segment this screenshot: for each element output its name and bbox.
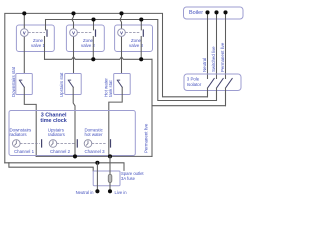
- channel 3 clock: [84, 140, 92, 148]
- wire motor1 vertical from line1 to stat1: [23, 13, 25, 73]
- svg-text:Permanent live: Permanent live: [220, 42, 225, 72]
- svg-text:V: V: [23, 31, 26, 36]
- svg-text:Downstairs stat: Downstairs stat: [11, 66, 16, 97]
- junction dots line2: [91, 17, 95, 21]
- svg-text:3 Pole: 3 Pole: [187, 77, 200, 82]
- dot live feed: [108, 154, 112, 158]
- dot valve2 switch to perm bus: [91, 57, 95, 61]
- wire valve3 switch up to line2 dot: [140, 20, 142, 30]
- channel 3 dashed link: [92, 143, 107, 145]
- svg-text:3A fuse: 3A fuse: [121, 176, 136, 181]
- boiler box: [184, 7, 244, 19]
- isolator switch 2: [217, 79, 224, 89]
- motor V3: [118, 29, 126, 37]
- neutral bottom bus Y2: [5, 163, 124, 171]
- valve2 switch bar: [95, 30, 97, 36]
- channel 2 dashed link: [57, 143, 75, 145]
- wire motor2 vertical with hop over line2: [72, 13, 74, 73]
- stat1 switch: [19, 79, 22, 81]
- 3 pole isolator box: [184, 74, 241, 91]
- junction dots line1: [22, 11, 26, 15]
- valve3 switch bar: [142, 30, 144, 36]
- channel 2 clock: [49, 140, 57, 148]
- zone valve 3 box: [115, 25, 153, 52]
- channel 1 clock: [12, 140, 20, 148]
- dot neutral-in junction: [95, 161, 99, 165]
- permanent live bus under valves with hops over stat wires: [45, 57, 153, 60]
- wire stat1 out with jog into clock box: [24, 87, 36, 156]
- wire permanent live: isolator U3 left to x152: [152, 91, 226, 106]
- zone valve 2 box: [66, 25, 104, 52]
- svg-text:Live in: Live in: [115, 190, 128, 195]
- neutral in terminal dot: [95, 189, 99, 193]
- spare outlet fused box: [93, 171, 120, 186]
- stat3 switch: [117, 79, 120, 81]
- wire permanent live riser x152: bus up to valve switch bus, down to clock bus: [151, 59, 153, 156]
- svg-text:Boiler: Boiler: [189, 10, 203, 16]
- channel 1 dashed link: [20, 143, 39, 145]
- svg-text:V: V: [72, 31, 75, 36]
- motor V2: [70, 29, 78, 37]
- wire valve1 switch up to line2: [45, 20, 47, 30]
- motor V1: [21, 29, 29, 37]
- permanent live bus Y1 below clock: [36, 155, 152, 157]
- dot ch2 feed: [73, 154, 77, 158]
- svg-text:Channel 2: Channel 2: [50, 149, 71, 154]
- svg-text:radiators: radiators: [10, 132, 28, 137]
- svg-text:tank stat: tank stat: [108, 80, 113, 97]
- neutral link Y3 to outlet box: [9, 163, 93, 171]
- isolator bottom wires: [207, 88, 209, 97]
- svg-text:hot water: hot water: [85, 132, 104, 137]
- live in terminal dot: [108, 189, 112, 193]
- hot water tank stat box: [114, 74, 131, 95]
- svg-text:Isolator: Isolator: [187, 82, 202, 87]
- wire neutral-in vertical: [96, 163, 98, 192]
- svg-text:radiators: radiators: [48, 132, 66, 137]
- svg-text:Upstairs stat: Upstairs stat: [59, 72, 64, 97]
- downstairs stat box: [16, 74, 33, 95]
- wire valve2 switch down to perm bus: [92, 37, 94, 60]
- wire valve1 switch down to perm bus: [44, 37, 46, 60]
- boiler terminal dots: [205, 10, 209, 14]
- channel 3 switch bar: [110, 140, 112, 147]
- stat2 switch: [68, 79, 71, 81]
- boiler wires down to isolator: [207, 12, 209, 78]
- fuse: [108, 174, 112, 182]
- svg-text:time clock: time clock: [40, 118, 66, 124]
- wire valve2 switch up to line2 dot: [93, 20, 95, 30]
- isolator switch 1: [208, 79, 215, 89]
- wire neutral ring: line1 top, left side, right side to isolator U1: [5, 13, 208, 162]
- zone valve 1 box: [16, 25, 54, 52]
- wire stat3 out with jog left into clock box: [109, 87, 122, 156]
- wire motor3 vertical with hop over line2: [120, 13, 122, 73]
- svg-text:Channel 3: Channel 3: [85, 149, 106, 154]
- dot valve3 switch to perm bus: [139, 57, 143, 61]
- channel 1 switch bar: [41, 140, 43, 147]
- valve2 aux switch dashed link: [78, 32, 93, 34]
- svg-text:Neutral: Neutral: [202, 58, 207, 72]
- svg-text:Channel 1: Channel 1: [14, 149, 35, 154]
- svg-text:Neutral in: Neutral in: [76, 190, 95, 195]
- isolator switch 3: [226, 79, 233, 89]
- svg-text:Permanent live: Permanent live: [144, 123, 149, 153]
- wire switched live: line2 to right side down to isolator U2: [46, 20, 217, 101]
- upstairs stat box: [65, 74, 82, 95]
- valve1 switch bar: [46, 30, 48, 36]
- time clock box: [9, 111, 135, 156]
- wire valve3 switch down to perm bus: [140, 37, 142, 60]
- channel 2 switch bar: [76, 140, 78, 147]
- wire live-in vertical: [109, 156, 111, 191]
- svg-text:V: V: [120, 31, 123, 36]
- svg-text:Switched live: Switched live: [211, 46, 216, 72]
- svg-text:valve 1: valve 1: [31, 43, 45, 48]
- valve3 aux switch dashed link: [126, 32, 141, 34]
- valve1 aux switch dashed link: [29, 32, 45, 34]
- wire stat2 out with small jog: [73, 87, 75, 156]
